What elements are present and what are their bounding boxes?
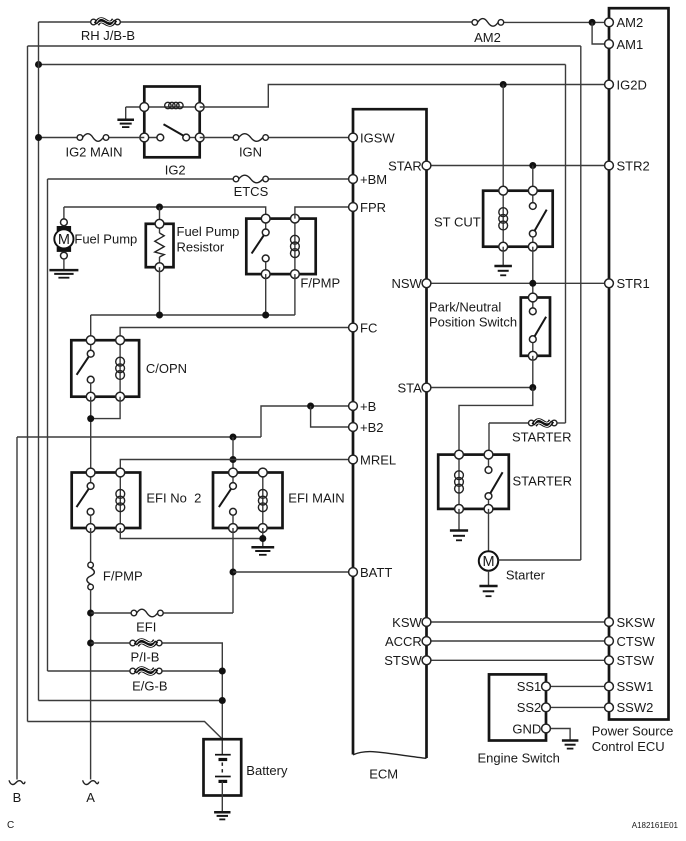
svg-text:ST CUT: ST CUT: [434, 215, 481, 230]
svg-text:AM2: AM2: [617, 15, 644, 30]
wire: IG2 MAIN line from rail to IG2: [39, 137, 80, 139]
pin ECM KSW: [422, 618, 431, 627]
battery BAT1 box: [204, 739, 242, 795]
svg-text:C: C: [7, 820, 14, 831]
switch IG2 contacts and blade: [157, 134, 164, 141]
fusible link RH J/B-B: [91, 19, 97, 25]
node: junction at AM2 pin feed: [589, 19, 596, 26]
relay EFI No 2 box: [72, 473, 141, 529]
wire: STAR to STR2 line y165.5: [427, 165, 610, 167]
wire: battery B feed line y437: [17, 436, 261, 438]
wire: x532.8 STR2 to ST CUT switch: [532, 166, 534, 191]
svg-text:STAR: STAR: [388, 158, 422, 173]
coil EFI MAIN: [262, 473, 264, 529]
svg-text:STR1: STR1: [617, 276, 650, 291]
wire: y700.5 line from rail x38.5: [39, 700, 223, 702]
wire: drop x233 from y437 to EFI MAIN relay: [232, 437, 234, 473]
pins EFI No 2: [86, 468, 95, 477]
node: junction STR2 / ST CUT switch: [529, 162, 536, 169]
node: junction IG2D / ST CUT coil: [500, 81, 507, 88]
ground ST CUT coil: [502, 247, 504, 266]
node: junction E/G-B / battery column: [219, 668, 226, 675]
pin ECU IG2D: [605, 80, 614, 89]
switch F/PMP: [265, 219, 267, 229]
node: junction y700.5 / battery column: [219, 697, 226, 704]
fusible link STARTER: [489, 422, 531, 424]
svg-text:ECM: ECM: [369, 767, 398, 782]
node: junction STA: [529, 384, 536, 391]
relay EFI MAIN box: [213, 473, 283, 529]
node: junction P/I-B: [87, 640, 94, 647]
node: junction F/PMP switch / y315: [262, 312, 269, 319]
wire: IG2 switch row y137.5 inside box: [144, 137, 160, 139]
wire: C/OPN switch bottom down the A column: [90, 397, 92, 473]
ECM wavy bottom edge: [353, 752, 427, 759]
wire: EFI MAIN switch bottom down x233: [232, 528, 234, 613]
coil ST CUT: [502, 191, 504, 247]
node: junction resistor top: [156, 204, 163, 211]
wire: MREL line from EFI No 2 coil to ECM MREL: [120, 460, 353, 473]
wire: jog from AM2 node down to AM1 pin: [592, 22, 609, 44]
switch STARTER: [488, 455, 490, 467]
pin ECU AM1: [605, 40, 614, 49]
coil STARTER: [458, 455, 460, 509]
wire: A column from EFI No 2 switch bottom: [90, 528, 92, 562]
fuse EFI: [131, 610, 137, 616]
wire: STSW to STSW: [427, 659, 610, 661]
fusible link P/I-B: [130, 640, 136, 646]
svg-text:F/PMP: F/PMP: [103, 569, 143, 584]
svg-text:Position Switch: Position Switch: [429, 314, 517, 329]
pin ECM STA: [422, 383, 431, 392]
svg-text:STARTER: STARTER: [513, 474, 572, 489]
Power Source Control ECU box U2: [609, 8, 669, 719]
node: junction BATT line: [230, 569, 237, 576]
svg-text:AM2: AM2: [474, 30, 501, 45]
wire: left rail x27.5 (AM1/battery): [27, 46, 29, 722]
wire: +B line: [261, 406, 353, 437]
pin ECU CTSW: [605, 637, 614, 646]
svg-text:SS2: SS2: [517, 700, 542, 715]
ground engine switch: [562, 741, 579, 749]
ground for IG2 coil: [125, 107, 127, 120]
wire: E/G-B line y671: [48, 670, 133, 672]
node A squiggle (line break): [83, 780, 99, 784]
wire: vertical x565.5 down to STARTER fuse: [565, 65, 567, 424]
wire: ST CUT switch bottom to STR1 node: [532, 247, 534, 298]
svg-text:ACCR: ACCR: [385, 634, 422, 649]
wire: left rail x38.5 (RH J/B-B feed): [38, 22, 40, 701]
node: junction rail x38.5 / IG2 MAIN: [35, 134, 42, 141]
pin ECM FC: [349, 323, 358, 332]
relay IG2 box: [144, 87, 199, 158]
wire: vertical battery cable x580.8 down to starter motor: [580, 46, 582, 560]
wire: P/N bottom to STA line: [532, 356, 534, 388]
svg-text:IGSW: IGSW: [360, 130, 395, 145]
svg-text:ETCS: ETCS: [234, 184, 269, 199]
svg-text:Power Source: Power Source: [592, 724, 674, 739]
svg-text:GND: GND: [512, 721, 541, 736]
pins STARTER relay: [455, 450, 464, 459]
wire: IG2 coil row y107: [126, 106, 200, 108]
ground below fuel pump: [63, 259, 65, 270]
svg-text:SSW2: SSW2: [617, 700, 654, 715]
svg-text:EFI No 2: EFI No 2: [146, 491, 201, 506]
ground STARTER coil: [458, 509, 460, 530]
pins ST CUT: [499, 186, 508, 195]
pins F/PMP: [261, 214, 270, 223]
pin IG2 switch left: [140, 133, 149, 142]
pin ECM MREL: [349, 455, 358, 464]
wire: battery feed top line y22 from rail B1 to AM2 pin: [39, 21, 94, 23]
pin ECM +B: [349, 402, 358, 411]
pin ECU SSW2: [605, 703, 614, 712]
svg-text:C/OPN: C/OPN: [146, 361, 187, 376]
svg-text:M: M: [58, 232, 70, 248]
svg-text:+B2: +B2: [360, 420, 384, 435]
resistor Fuel Pump Resistor box: [146, 224, 174, 267]
svg-text:NSW: NSW: [391, 276, 422, 291]
coil EFI No 2: [119, 473, 121, 529]
pin ECU STSW: [605, 656, 614, 665]
wire: EFI fuse line y613: [91, 612, 134, 614]
fuse F/PMP (vertical): [88, 562, 94, 568]
svg-text:Engine Switch: Engine Switch: [478, 751, 560, 766]
relay C/OPN box: [71, 340, 139, 397]
svg-text:AM1: AM1: [617, 37, 644, 52]
coil L-IG2 (horizontal): [165, 102, 171, 108]
relay ST CUT box: [483, 191, 553, 247]
svg-text:STA: STA: [397, 380, 422, 395]
wire: A column continues to squiggle: [90, 590, 92, 780]
wire: IGN line from IG2 to ECM IGSW: [200, 137, 236, 139]
svg-text:STR2: STR2: [617, 158, 650, 173]
wire: y721.5 line from rail x27.5 with diagonal to battery: [28, 722, 223, 740]
switch C/OPN: [90, 340, 92, 350]
node: junction +B / +B2: [307, 403, 314, 410]
ground battery: [214, 812, 230, 819]
wire: BATT line to ECM: [233, 571, 353, 573]
svg-text:RH J/B-B: RH J/B-B: [81, 28, 135, 43]
pin IG2 switch right: [195, 133, 204, 142]
Engine Switch box SW1: [489, 674, 546, 740]
wire: battery negative to ground: [221, 781, 223, 812]
pin ECM +B2: [349, 423, 358, 432]
relay F/PMP box: [246, 219, 315, 275]
coil C/OPN: [119, 340, 121, 397]
wire: AM1 rail y46 from rail B2 to right drop x581: [28, 45, 581, 47]
wire: P/I-B line y643: [91, 642, 133, 644]
svg-text:FC: FC: [360, 320, 377, 335]
svg-text:M: M: [482, 554, 494, 570]
pin ECM FPR: [349, 203, 358, 212]
svg-text:KSW: KSW: [392, 615, 422, 630]
motor Fuel Pump: [57, 226, 71, 231]
pin resistor bottom: [155, 263, 164, 272]
svg-text:IG2 MAIN: IG2 MAIN: [65, 145, 122, 160]
wire: SS2 to SSW2: [546, 706, 609, 708]
pins EFI MAIN: [229, 468, 238, 477]
svg-text:Fuel Pump: Fuel Pump: [177, 224, 240, 239]
node: junction rail x38.5 / y64.5: [35, 61, 42, 68]
pin resistor top: [155, 219, 164, 228]
pin ECU STR2: [605, 161, 614, 170]
pin Engine Switch SS2: [542, 703, 551, 712]
svg-text:STSW: STSW: [617, 653, 655, 668]
battery cells: [215, 754, 231, 756]
svg-text:CTSW: CTSW: [617, 634, 656, 649]
pin Engine Switch SS1: [542, 682, 551, 691]
wire: F/PMP coil bottom to return line y315: [294, 274, 296, 315]
svg-text:IGN: IGN: [239, 145, 262, 160]
svg-text:SS1: SS1: [517, 679, 542, 694]
pin IG2 coil left: [140, 103, 149, 112]
wire: left rail B x17: [16, 437, 18, 780]
switch Park/Neutral Position Switch box: [521, 298, 550, 356]
svg-text:EFI: EFI: [136, 620, 156, 635]
wire: C/OPN coil bottom link to A column: [91, 397, 120, 419]
node: junction MREL / x233: [230, 456, 237, 463]
svg-text:BATT: BATT: [360, 565, 392, 580]
svg-text:SKSW: SKSW: [617, 615, 656, 630]
motor Starter: [479, 551, 498, 570]
wire: NSW to STR1 line y283.3: [427, 282, 610, 284]
fuse IG2 MAIN: [77, 135, 83, 141]
wire: +B2 jog: [311, 406, 353, 427]
pins C/OPN: [86, 336, 95, 345]
svg-text:Starter: Starter: [506, 568, 546, 583]
wire: EFI No 2 coil bottom to ground link y538.5: [120, 528, 262, 539]
pins P/N switch: [528, 293, 537, 302]
svg-text:P/I-B: P/I-B: [131, 650, 160, 665]
ground EFI relays: [251, 547, 274, 555]
wire: STA route to STARTER coil: [459, 388, 533, 455]
wire: y64.5 line from rail x38.5 to STARTER fuse drop: [39, 64, 566, 66]
svg-text:EFI MAIN: EFI MAIN: [288, 491, 344, 506]
fuse AM2: [472, 20, 478, 26]
wire: SS1 to SSW1: [546, 685, 609, 687]
pin ECU AM2: [605, 18, 614, 27]
svg-text:IG2D: IG2D: [617, 77, 647, 92]
svg-text:Park/Neutral: Park/Neutral: [429, 300, 501, 315]
wire: fuel pump feed line y207: [63, 207, 65, 219]
fusible link E/G-B: [130, 668, 136, 674]
ECM box U1 (left, top, right edges): [353, 109, 427, 758]
wire: EFI MAIN coil bottom to ground: [262, 528, 264, 547]
wire: FC line from C/OPN coil to ECM FC: [120, 328, 353, 341]
svg-text:SSW1: SSW1: [617, 679, 654, 694]
pin Engine Switch GND: [542, 724, 551, 733]
node: junction resistor bottom / y315: [156, 312, 163, 319]
svg-text:STSW: STSW: [384, 653, 422, 668]
wire: starter motor B+ tap to battery cable: [498, 559, 581, 561]
wire: STA line: [427, 387, 533, 389]
wire: IG2 coil to IG2D pin: [200, 85, 609, 108]
wire: x503.2 from IG2D line to ST CUT coil: [502, 85, 504, 191]
wire: KSW to SKSW: [427, 621, 610, 623]
fuse ETCS: [233, 176, 239, 182]
node: junction STR1 / P-N switch: [529, 280, 536, 287]
wire: resistor bottom to return line: [159, 267, 161, 315]
pin ECM STSW: [422, 656, 431, 665]
pin ECU SKSW: [605, 618, 614, 627]
pin ECM IGSW: [349, 133, 358, 142]
pin ECM BATT: [349, 568, 358, 577]
switch EFI No 2: [90, 473, 92, 483]
node B squiggle (line break): [9, 780, 25, 784]
svg-text:MREL: MREL: [360, 452, 396, 467]
switch EFI MAIN: [232, 473, 234, 483]
pin ECU STR1: [605, 279, 614, 288]
wire: FPR line from F/PMP coil to ECM FPR: [295, 207, 353, 219]
pin ECU SSW1: [605, 682, 614, 691]
switch ST CUT: [532, 191, 534, 203]
svg-text:A182161E01: A182161E01: [632, 821, 679, 830]
svg-text:STARTER: STARTER: [512, 430, 571, 445]
pin ECM STAR: [422, 161, 431, 170]
wire: ETCS line from rail x47.5 to ECM +BM: [48, 178, 237, 180]
svg-text:F/PMP: F/PMP: [300, 276, 340, 291]
wire: return line y315: [91, 314, 295, 316]
ground starter motor: [488, 571, 490, 586]
pin IG2 coil right: [195, 103, 204, 112]
svg-text:A: A: [86, 790, 95, 805]
node: junction y437 / EFI MAIN drop: [230, 434, 237, 441]
svg-text:+B: +B: [360, 399, 376, 414]
svg-text:Battery: Battery: [246, 763, 288, 778]
svg-text:Resistor: Resistor: [177, 239, 225, 254]
relay STARTER box: [438, 455, 509, 509]
svg-text:Control ECU: Control ECU: [592, 739, 665, 754]
node: junction EFI fuse: [87, 610, 94, 617]
svg-text:B: B: [13, 790, 22, 805]
pin ECM ACCR: [422, 637, 431, 646]
pin ECM +BM: [349, 175, 358, 184]
node: junction C/OPN coil return: [87, 415, 94, 422]
svg-text:IG2: IG2: [165, 163, 186, 178]
svg-text:+BM: +BM: [360, 172, 387, 187]
node: junction coil grounds: [259, 535, 266, 542]
wire: STARTER switch to starter motor: [488, 509, 490, 551]
wire: GND to ground: [546, 729, 570, 741]
coil F/PMP: [294, 219, 296, 275]
wire: F/PMP switch bottom to return line y315: [265, 274, 267, 315]
wire: ACCR to CTSW: [427, 640, 610, 642]
svg-text:Fuel Pump: Fuel Pump: [74, 232, 137, 247]
svg-text:E/G-B: E/G-B: [132, 679, 167, 694]
pin ECM NSW: [422, 279, 431, 288]
wire: left rail x47.5: [47, 179, 49, 671]
fuse IGN: [233, 135, 239, 141]
svg-text:FPR: FPR: [360, 200, 386, 215]
